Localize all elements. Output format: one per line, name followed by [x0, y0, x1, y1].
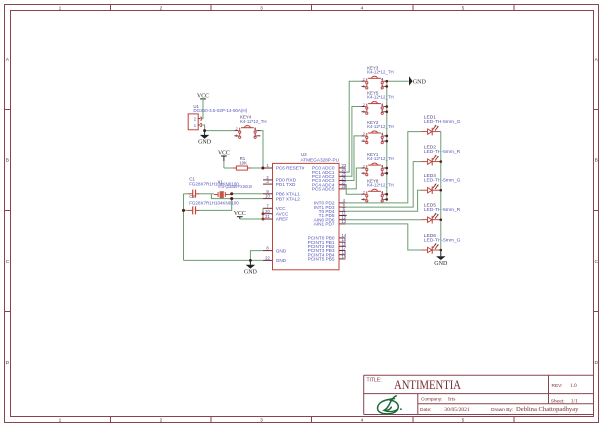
- wire U1 pin1 to GND junction: [202, 125, 205, 131]
- svg-text:K4-12*12_TH: K4-12*12_TH: [240, 119, 267, 124]
- svg-text:PC6 RESET#: PC6 RESET#: [276, 166, 305, 171]
- svg-text:2: 2: [160, 418, 163, 424]
- rev cell: [552, 383, 578, 389]
- U3 pin 9 PB6 XTAL1: [263, 189, 300, 197]
- wire U3 pin25 to KEY5: [346, 107, 362, 177]
- node XTAL2 junction: [230, 197, 233, 200]
- svg-text:AREF: AREF: [276, 217, 289, 222]
- svg-text:C: C: [6, 259, 10, 265]
- wire U3 pin11 stub: [346, 215, 348, 217]
- svg-text:K4-12*12_TH: K4-12*12_TH: [367, 182, 394, 187]
- switch KEY4 K4-12*12_TH reset button: [234, 115, 266, 139]
- svg-text:GND: GND: [198, 140, 212, 146]
- U3 pin 22 GND: [263, 256, 287, 264]
- U3 pin 19 PCINT5 PB5: [308, 254, 347, 262]
- svg-text:4: 4: [361, 6, 364, 12]
- IC U3 ATMEGA328P-PU body: [273, 152, 340, 270]
- svg-text:TITLE:: TITLE:: [367, 378, 382, 384]
- svg-text:5: 5: [462, 418, 465, 424]
- wire LED cathode rail: [440, 132, 442, 250]
- U3 pin 16 PCINT2 PB2: [308, 241, 347, 249]
- frame column numbers: [59, 6, 465, 424]
- switch KEY5 K4-12*12_TH: [362, 91, 394, 115]
- svg-text:4: 4: [254, 126, 257, 131]
- wire U3 pin28 to KEY1: [346, 168, 362, 189]
- U3 pin 12 AIN0 PD6: [314, 215, 347, 223]
- U3 pin 14 PCINT0 PB0: [308, 233, 347, 241]
- LED LED6 LED-TH-5mm_G: [421, 233, 461, 254]
- svg-text:ANTIMENTIA: ANTIMENTIA: [394, 377, 462, 392]
- svg-text:30/05/2021: 30/05/2021: [444, 407, 470, 413]
- power VCC symbol above R1: [218, 151, 230, 168]
- svg-text:Deblina Chattopadhyay: Deblina Chattopadhyay: [516, 406, 579, 413]
- resistor R1 10k: [233, 156, 252, 170]
- U3 pin 4 INT0 PD2: [314, 198, 346, 206]
- svg-text:GND: GND: [244, 269, 258, 275]
- svg-text:C: C: [594, 259, 598, 265]
- svg-text:LED-TH-5mm_G: LED-TH-5mm_G: [424, 237, 461, 243]
- svg-text:B: B: [6, 158, 9, 164]
- U3 pin 24 PC1 ADC1: [312, 167, 347, 175]
- U3 pin 6 T0 PD4: [319, 206, 346, 214]
- switch KEY3 K4-12*12_TH: [362, 65, 394, 89]
- svg-text:1.0: 1.0: [570, 383, 577, 389]
- U3 pin 10 PB7 XTAL2: [263, 194, 300, 202]
- svg-text:PD1 TXD: PD1 TXD: [276, 182, 296, 187]
- U3 pin 25 PC2 ADC2: [312, 171, 347, 179]
- U3 pin 1 PC6 RESET#: [263, 163, 305, 171]
- logo: [378, 396, 402, 414]
- U3 pin 23 PC0 ADC0: [312, 163, 347, 171]
- svg-text:8: 8: [266, 246, 269, 251]
- svg-text:21: 21: [265, 214, 270, 219]
- wire U3 pin27 to KEY8: [346, 185, 362, 195]
- svg-text:Date:: Date:: [420, 407, 431, 413]
- svg-text:7: 7: [266, 203, 269, 208]
- switch KEY8 K4-12*12_TH: [362, 178, 394, 202]
- date cell: [420, 406, 579, 413]
- wire KEY4 right pins down to RESET net: [260, 131, 263, 168]
- U3 pin 13 AIN1 PD7: [314, 219, 347, 227]
- svg-text:K4-12*12_TH: K4-12*12_TH: [367, 69, 394, 74]
- svg-text:GND: GND: [434, 261, 448, 267]
- ground symbol under LED cathode rail: [434, 250, 448, 267]
- U3 pin 2 PD0 RXD: [263, 175, 297, 183]
- svg-text:3: 3: [260, 6, 263, 12]
- svg-text:K4-12*12_TH: K4-12*12_TH: [367, 124, 394, 129]
- connector U1 DG350-3.5-02P-14-00A(H): [188, 104, 247, 130]
- U3 pin 7 VCC: [263, 203, 286, 211]
- wire U3 pin13 to LED6: [346, 224, 422, 250]
- svg-text:3: 3: [260, 418, 263, 424]
- ground symbol under U1: [198, 131, 212, 146]
- svg-text:Sheet:: Sheet:: [551, 398, 565, 404]
- svg-text:U3: U3: [301, 152, 307, 157]
- LED LED1 LED-TH-5mm_G: [421, 114, 461, 135]
- svg-text:D: D: [6, 360, 10, 366]
- U3 pin 27 PC4 ADC4: [312, 180, 347, 188]
- svg-text:1: 1: [59, 418, 62, 424]
- svg-text:20: 20: [265, 209, 270, 214]
- switch KEY1 K4-12*12_TH: [362, 152, 394, 176]
- node U1 GND junction: [203, 129, 206, 132]
- wire U3 pin8 pin22 to GND: [184, 251, 264, 261]
- wire U3 pin4 to LED1: [346, 132, 422, 203]
- title text ANTIMENTIA: [367, 377, 462, 392]
- wire R1 to U3 pin1 RESET: [251, 167, 263, 169]
- svg-text:PCINT5 PB5: PCINT5 PB5: [308, 257, 335, 262]
- node RESET junction: [261, 166, 264, 169]
- wire U3 pin26 to KEY2: [346, 136, 362, 181]
- svg-text:10K: 10K: [239, 160, 247, 165]
- power VCC symbol above U1: [197, 93, 209, 118]
- node XTAL1 junction: [230, 192, 233, 195]
- node GND junction under U3: [249, 259, 252, 262]
- svg-text:D: D: [594, 360, 598, 366]
- svg-text:B: B: [595, 158, 598, 164]
- svg-text:2: 2: [236, 126, 239, 131]
- power VCC symbol near U3 supply pins: [234, 211, 246, 219]
- svg-text:A: A: [595, 57, 599, 63]
- wire GND rail left of caps: [184, 194, 189, 261]
- wire XTAL1 net C1 to U3 pin9: [200, 193, 264, 196]
- svg-text:Iris: Iris: [448, 397, 455, 403]
- ground symbol under U3 GND pins: [244, 260, 258, 275]
- wire U3 pin24 to KEY3: [346, 81, 362, 172]
- svg-text:ATMEGA328P-PU: ATMEGA328P-PU: [301, 157, 340, 162]
- U3 pin 3 PD1 TXD: [263, 179, 296, 187]
- svg-text:GND: GND: [413, 79, 427, 85]
- ground net arrow right of KEY3: [409, 76, 426, 85]
- svg-text:1: 1: [59, 6, 62, 12]
- company cell: [421, 397, 455, 403]
- U3 pin 18 PCINT4 PB4: [308, 250, 347, 258]
- svg-text:Drawn By:: Drawn By:: [491, 407, 513, 413]
- svg-text:LED-TH-5mm_G: LED-TH-5mm_G: [424, 178, 461, 184]
- svg-text:LED-TH-5mm_G: LED-TH-5mm_G: [424, 119, 461, 125]
- svg-text:ATS-Q11068-FX16X10: ATS-Q11068-FX16X10: [218, 184, 252, 189]
- sheet cell: [551, 398, 578, 404]
- wire C2 riser to XTAL2: [200, 199, 232, 211]
- node LED rail junctions: [440, 160, 443, 251]
- svg-text:PC5 ADC5: PC5 ADC5: [312, 187, 335, 192]
- wire U3 pin5 to LED2: [346, 162, 422, 208]
- svg-text:19: 19: [341, 254, 346, 259]
- svg-text:K4-12*12_TH: K4-12*12_TH: [367, 156, 394, 161]
- svg-text:GND: GND: [276, 258, 287, 263]
- node C2 GND junction: [182, 209, 185, 212]
- LED LED4 LED-TH-5mm_G: [421, 173, 461, 194]
- frame row letters: [6, 57, 599, 366]
- U3 pin 11 T1 PD5: [319, 211, 347, 219]
- U3 pin 15 PCINT1 PB1: [308, 237, 347, 245]
- crystal X1 ATS-Q11068-FX16X10: [214, 179, 252, 198]
- svg-text:AVCC: AVCC: [276, 211, 289, 216]
- svg-text:C2: C2: [189, 194, 195, 199]
- wire GND junction to KEY4 left pins: [205, 130, 235, 132]
- U3 pin 20 AVCC: [263, 209, 289, 217]
- wire VCC to U3 supply pins: [240, 208, 263, 219]
- wire key ground rail: [387, 81, 409, 199]
- wire XTAL2 net loop under crystal: [211, 194, 263, 199]
- U3 pin 8 GND: [263, 246, 287, 254]
- svg-text:10: 10: [265, 194, 270, 199]
- svg-text:5: 5: [462, 6, 465, 12]
- U3 pin 28 PC5 ADC5: [312, 184, 347, 192]
- svg-text:DG350-3.5-02P-14-00A(H): DG350-3.5-02P-14-00A(H): [193, 108, 247, 113]
- U3 pin 21 AREF: [263, 214, 288, 222]
- svg-text:VCC: VCC: [276, 206, 287, 211]
- svg-text:LED-TH-5mm_R: LED-TH-5mm_R: [424, 149, 461, 155]
- svg-text:22: 22: [265, 256, 270, 261]
- svg-text:1: 1: [266, 163, 269, 168]
- U3 pin 26 PC3 ADC3: [312, 176, 347, 184]
- U3 pin 17 PCINT3 PB3: [308, 246, 347, 254]
- svg-text:GND: GND: [276, 248, 287, 253]
- svg-text:Company:: Company:: [421, 397, 442, 402]
- wire U1 pin2 to VCC: [202, 99, 203, 119]
- node key rail junctions: [386, 80, 389, 201]
- node AREF junction: [262, 218, 265, 221]
- svg-text:AIN1 PD7: AIN1 PD7: [314, 222, 335, 227]
- capacitor C1 FG28X7R1H104KN0100: [188, 177, 239, 198]
- wire U3 pin12 to LED5: [346, 219, 422, 221]
- capacitor C2 FG28X7R1H104KN0100: [188, 194, 239, 215]
- svg-text:1/1: 1/1: [571, 398, 578, 404]
- switch KEY2 K4-12*12_TH: [362, 120, 394, 144]
- LED LED2 LED-TH-5mm_R: [421, 144, 461, 165]
- LED LED5 LED-TH-5mm_R: [421, 203, 461, 224]
- title block grid: [364, 375, 594, 414]
- svg-text:LED-TH-5mm_R: LED-TH-5mm_R: [424, 207, 461, 213]
- svg-text:4: 4: [361, 418, 364, 424]
- U3 pin 5 INT1 PD3: [314, 202, 346, 210]
- svg-text:K4-12*12_TH: K4-12*12_TH: [367, 95, 394, 100]
- svg-text:REV:: REV:: [552, 383, 563, 389]
- svg-text:A: A: [6, 57, 10, 63]
- svg-text:2: 2: [160, 6, 163, 12]
- node AVCC junction: [262, 212, 265, 215]
- wire VCC to R1: [224, 167, 233, 169]
- svg-text:PB7 XTAL2: PB7 XTAL2: [276, 196, 301, 201]
- wire U3 pin6 to LED4: [346, 190, 422, 211]
